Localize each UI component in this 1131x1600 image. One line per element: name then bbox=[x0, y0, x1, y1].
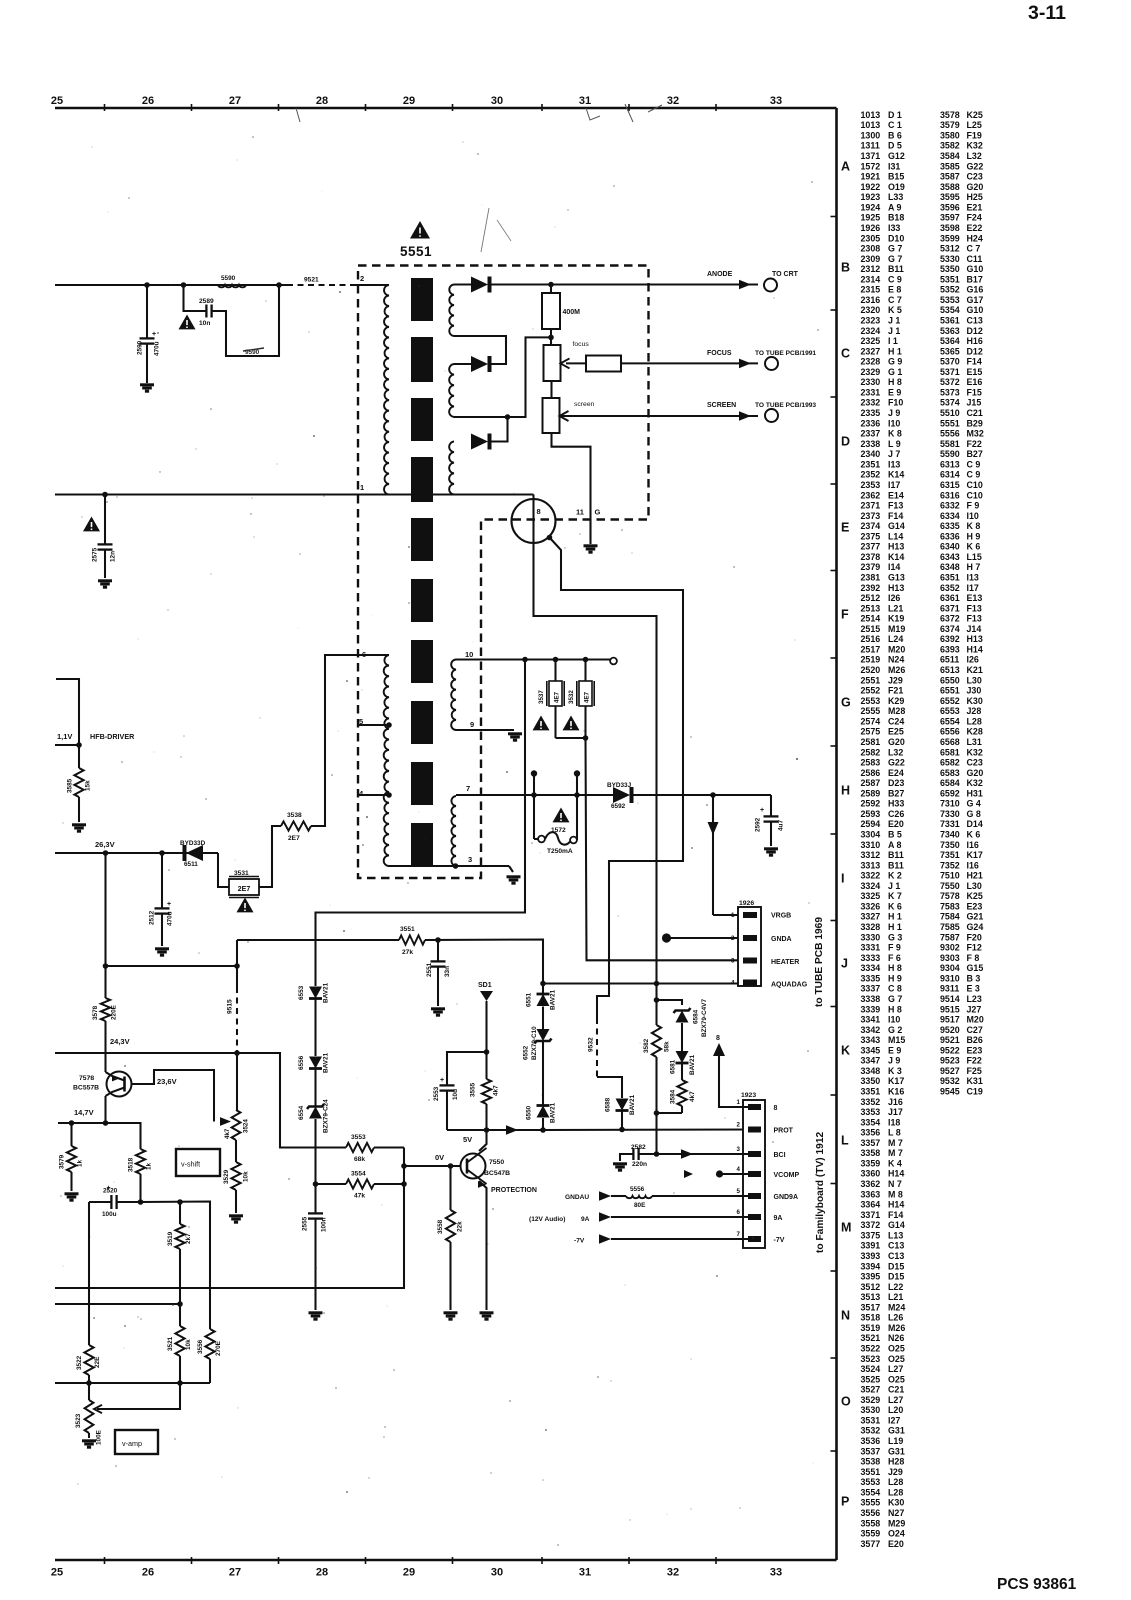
junction 2551 top bbox=[435, 937, 441, 943]
diode 6588 BAV21 bbox=[605, 1094, 637, 1115]
resistor 400M bbox=[542, 285, 560, 346]
svg-text:3532: 3532 bbox=[568, 690, 575, 704]
diode D1 HV top bbox=[471, 277, 490, 293]
svg-text:31: 31 bbox=[579, 95, 591, 107]
svg-text:6583: 6583 bbox=[940, 768, 960, 778]
svg-text:2324: 2324 bbox=[861, 326, 881, 336]
svg-text:0V: 0V bbox=[435, 1153, 444, 1162]
svg-text:E: E bbox=[841, 521, 849, 535]
svg-text:HFB-DRIVER: HFB-DRIVER bbox=[90, 732, 135, 741]
svg-text:M32: M32 bbox=[967, 429, 984, 439]
svg-text:F25: F25 bbox=[967, 1066, 982, 1076]
warning triangle 5551 bbox=[410, 221, 430, 239]
svg-text:L30: L30 bbox=[967, 881, 982, 891]
svg-text:1923: 1923 bbox=[741, 1092, 756, 1099]
wire pin8 up bbox=[713, 1035, 754, 1107]
svg-text:3596: 3596 bbox=[940, 202, 960, 212]
svg-text:6581: 6581 bbox=[670, 1059, 677, 1074]
svg-text:H24: H24 bbox=[967, 233, 983, 243]
svg-text:7583: 7583 bbox=[940, 902, 960, 912]
svg-text:3304: 3304 bbox=[861, 830, 881, 840]
svg-text:F14: F14 bbox=[967, 357, 982, 367]
svg-text:B27: B27 bbox=[967, 449, 983, 459]
svg-text:400M: 400M bbox=[563, 309, 581, 316]
svg-text:2: 2 bbox=[731, 935, 735, 942]
wire 6551 column top bbox=[542, 984, 544, 995]
svg-text:6513: 6513 bbox=[940, 665, 960, 675]
wire 6588 to PROT bbox=[621, 1111, 623, 1130]
transistor 7550 BC547B bbox=[461, 1130, 511, 1310]
svg-text:3339: 3339 bbox=[861, 1004, 881, 1014]
svg-text:L: L bbox=[841, 1134, 849, 1148]
svg-text:E25: E25 bbox=[888, 727, 904, 737]
svg-text:BC547B: BC547B bbox=[484, 1170, 510, 1177]
svg-text:9527: 9527 bbox=[940, 1066, 960, 1076]
svg-text:K 6: K 6 bbox=[888, 902, 902, 912]
svg-text:M29: M29 bbox=[888, 1518, 905, 1528]
svg-text:J 1: J 1 bbox=[888, 316, 900, 326]
label 5V bbox=[463, 1135, 472, 1144]
label 3590 smudge bbox=[243, 348, 264, 356]
ground pin9 bbox=[508, 734, 522, 740]
svg-text:6550: 6550 bbox=[940, 675, 960, 685]
label to TUBE PCB 1969 bbox=[814, 917, 825, 1007]
svg-text:3345: 3345 bbox=[861, 1045, 881, 1055]
svg-text:AQUADAG: AQUADAG bbox=[771, 982, 808, 989]
svg-text:6551: 6551 bbox=[526, 992, 533, 1007]
ground 3558 bbox=[444, 1313, 458, 1319]
svg-text:TO TUBE PCB/1991: TO TUBE PCB/1991 bbox=[755, 350, 816, 357]
svg-text:E22: E22 bbox=[967, 223, 983, 233]
svg-text:3529: 3529 bbox=[223, 1169, 230, 1184]
svg-text:G 8: G 8 bbox=[967, 809, 981, 819]
junction 3519 top bbox=[177, 1199, 183, 1205]
capacitor 2520 bbox=[89, 1185, 141, 1218]
svg-text:27: 27 bbox=[229, 95, 241, 107]
svg-text:9522: 9522 bbox=[940, 1045, 960, 1055]
svg-text:M 8: M 8 bbox=[888, 1189, 903, 1199]
svg-text:9523: 9523 bbox=[940, 1056, 960, 1066]
ground 2590 bbox=[140, 385, 154, 391]
svg-text:3530: 3530 bbox=[861, 1405, 881, 1415]
svg-text:6552: 6552 bbox=[523, 1045, 530, 1060]
svg-text:BYD33D: BYD33D bbox=[180, 840, 206, 847]
parts list column 2 bbox=[940, 110, 984, 1097]
svg-text:3553: 3553 bbox=[351, 1134, 366, 1141]
svg-text:33n: 33n bbox=[444, 966, 451, 977]
resistor 3558 bbox=[437, 1166, 464, 1310]
svg-text:9A: 9A bbox=[581, 1216, 590, 1223]
warning triangle 3537 bbox=[533, 716, 550, 731]
svg-text:6554: 6554 bbox=[298, 1105, 305, 1120]
svg-text:9515: 9515 bbox=[227, 999, 234, 1014]
svg-text:2551: 2551 bbox=[861, 675, 881, 685]
svg-text:3531: 3531 bbox=[234, 870, 249, 877]
svg-text:C11: C11 bbox=[967, 254, 983, 264]
svg-text:H14: H14 bbox=[888, 1169, 904, 1179]
capacitor 2582 bbox=[613, 1144, 657, 1170]
svg-text:F14: F14 bbox=[888, 511, 903, 521]
svg-text:G10: G10 bbox=[967, 305, 984, 315]
svg-text:L28: L28 bbox=[888, 1487, 903, 1497]
svg-text:G12: G12 bbox=[888, 151, 905, 161]
capacitor 2553 bbox=[433, 1052, 487, 1130]
svg-text:K 2: K 2 bbox=[888, 871, 902, 881]
svg-text:2373: 2373 bbox=[861, 511, 881, 521]
wire 6584-6581 bbox=[681, 1023, 683, 1051]
svg-text:2327: 2327 bbox=[861, 346, 881, 356]
junction 1383 b bbox=[177, 1380, 183, 1386]
junction 6550 PROT bbox=[540, 1127, 546, 1133]
svg-text:H31: H31 bbox=[967, 788, 983, 798]
svg-text:3537: 3537 bbox=[861, 1446, 881, 1456]
junction pin10 a bbox=[522, 657, 528, 663]
svg-text:G 7: G 7 bbox=[888, 994, 902, 1004]
svg-text:2377: 2377 bbox=[861, 542, 881, 552]
svg-text:3538: 3538 bbox=[861, 1457, 881, 1467]
svg-text:N 7: N 7 bbox=[888, 1179, 902, 1189]
svg-text:3554: 3554 bbox=[351, 1171, 366, 1178]
svg-text:BZX79-C24: BZX79-C24 bbox=[323, 1099, 330, 1133]
svg-text:4E7: 4E7 bbox=[554, 691, 561, 703]
connector 1926 box bbox=[738, 907, 761, 986]
winding HV section 2 bbox=[449, 364, 454, 417]
svg-text:B15: B15 bbox=[888, 172, 904, 182]
svg-text:H 9: H 9 bbox=[888, 973, 902, 983]
label screen bbox=[574, 401, 595, 408]
label SCREEN bbox=[707, 402, 736, 409]
svg-text:BCI: BCI bbox=[774, 1152, 786, 1159]
svg-text:5350: 5350 bbox=[940, 264, 960, 274]
arrow -7V bbox=[599, 1234, 611, 1244]
svg-text:2362: 2362 bbox=[861, 490, 881, 500]
svg-text:2337: 2337 bbox=[861, 429, 881, 439]
svg-text:G10: G10 bbox=[967, 264, 984, 274]
connector 1923 box bbox=[743, 1100, 765, 1248]
svg-text:2516: 2516 bbox=[861, 634, 881, 644]
svg-text:K25: K25 bbox=[967, 110, 983, 120]
svg-text:6553: 6553 bbox=[940, 706, 960, 716]
svg-text:B 3: B 3 bbox=[967, 973, 981, 983]
CRT heater circle bbox=[512, 499, 556, 543]
svg-text:3330: 3330 bbox=[861, 932, 881, 942]
svg-text:7550: 7550 bbox=[489, 1159, 504, 1166]
svg-text:K30: K30 bbox=[967, 696, 983, 706]
svg-text:K32: K32 bbox=[967, 778, 983, 788]
svg-text:B27: B27 bbox=[888, 788, 904, 798]
svg-text:24,3V: 24,3V bbox=[110, 1037, 130, 1046]
label PROTECTION bbox=[491, 1187, 537, 1194]
svg-text:5352: 5352 bbox=[940, 285, 960, 295]
svg-text:L27: L27 bbox=[888, 1395, 903, 1405]
svg-text:C26: C26 bbox=[888, 809, 904, 819]
svg-text:2351: 2351 bbox=[861, 459, 881, 469]
svg-text:M28: M28 bbox=[888, 706, 905, 716]
svg-text:22E: 22E bbox=[94, 1356, 101, 1368]
svg-text:10u: 10u bbox=[452, 1089, 459, 1100]
svg-text:G14: G14 bbox=[888, 521, 905, 531]
svg-text:9521: 9521 bbox=[304, 277, 319, 284]
svg-text:G31: G31 bbox=[888, 1446, 905, 1456]
svg-text:C27: C27 bbox=[967, 1025, 983, 1035]
capacitor 2551 bbox=[426, 940, 451, 1006]
svg-text:4: 4 bbox=[731, 980, 735, 987]
svg-text:1: 1 bbox=[737, 1099, 741, 1106]
svg-text:G13: G13 bbox=[888, 573, 905, 583]
svg-text:K14: K14 bbox=[888, 552, 904, 562]
svg-text:F15: F15 bbox=[967, 388, 982, 398]
svg-text:30: 30 bbox=[491, 1567, 503, 1579]
svg-text:6314: 6314 bbox=[940, 470, 960, 480]
wire pin4 stub bbox=[359, 794, 389, 796]
svg-text:J29: J29 bbox=[888, 1467, 903, 1477]
wire VCOMP bbox=[720, 1173, 755, 1175]
svg-text:C21: C21 bbox=[888, 1385, 904, 1395]
warning triangle 3532 bbox=[563, 716, 580, 731]
svg-text:1311: 1311 bbox=[861, 141, 880, 151]
svg-text:7330: 7330 bbox=[940, 809, 960, 819]
svg-text:100E: 100E bbox=[96, 1429, 103, 1445]
resistor 3529 bbox=[223, 1162, 250, 1190]
wire 6552-6550 bbox=[542, 1042, 544, 1106]
svg-text:L32: L32 bbox=[967, 151, 982, 161]
svg-text:6336: 6336 bbox=[940, 531, 960, 541]
svg-text:80E: 80E bbox=[634, 1202, 646, 1209]
svg-text:4: 4 bbox=[737, 1166, 741, 1173]
svg-text:G17: G17 bbox=[967, 295, 984, 305]
wire GNDA line bbox=[667, 937, 751, 939]
svg-text:I26: I26 bbox=[888, 593, 900, 603]
arrow GNDAU bbox=[599, 1191, 611, 1201]
svg-text:3523: 3523 bbox=[861, 1354, 881, 1364]
svg-text:5581: 5581 bbox=[940, 439, 960, 449]
svg-text:SD1: SD1 bbox=[478, 982, 492, 989]
junction fusible join bbox=[583, 735, 589, 741]
svg-text:10: 10 bbox=[465, 650, 473, 659]
svg-text:I31: I31 bbox=[888, 161, 900, 171]
svg-text:3324: 3324 bbox=[861, 881, 881, 891]
junction 3558 top bbox=[448, 1163, 454, 1169]
svg-text:2375: 2375 bbox=[861, 531, 881, 541]
svg-text:2336: 2336 bbox=[861, 418, 881, 428]
wire 237 riser top bbox=[236, 940, 238, 987]
resistor 3553 bbox=[346, 1134, 374, 1163]
svg-text:5354: 5354 bbox=[940, 305, 960, 315]
svg-text:6511: 6511 bbox=[940, 655, 959, 665]
svg-text:C: C bbox=[841, 347, 850, 361]
svg-text:H33: H33 bbox=[888, 799, 904, 809]
ground pin3 bbox=[507, 877, 521, 883]
svg-text:K 8: K 8 bbox=[967, 521, 981, 531]
svg-text:25: 25 bbox=[51, 95, 63, 107]
resistor 3585 bbox=[67, 745, 92, 822]
svg-text:5V: 5V bbox=[463, 1135, 472, 1144]
svg-text:O25: O25 bbox=[888, 1354, 905, 1364]
pin 11 label bbox=[576, 508, 584, 517]
label to Familyboard bbox=[815, 1132, 826, 1253]
svg-text:H13: H13 bbox=[888, 583, 904, 593]
label BCI bbox=[774, 1152, 786, 1159]
ground 2555 bbox=[309, 1313, 323, 1319]
svg-text:B11: B11 bbox=[888, 850, 904, 860]
svg-text:5363: 5363 bbox=[940, 326, 960, 336]
svg-text:3512: 3512 bbox=[861, 1282, 881, 1292]
label HEATER bbox=[771, 959, 799, 966]
resistor 3556 bbox=[197, 1329, 222, 1383]
svg-text:3326: 3326 bbox=[861, 902, 881, 912]
svg-text:9310: 9310 bbox=[940, 973, 960, 983]
svg-text:E23: E23 bbox=[967, 1045, 983, 1055]
svg-text:L22: L22 bbox=[888, 1282, 903, 1292]
pin 10 label bbox=[465, 650, 473, 659]
svg-text:G21: G21 bbox=[967, 912, 984, 922]
svg-text:L25: L25 bbox=[967, 120, 982, 130]
svg-text:I10: I10 bbox=[888, 418, 900, 428]
svg-text:M: M bbox=[841, 1221, 851, 1235]
svg-text:2512: 2512 bbox=[149, 910, 156, 925]
svg-text:F13: F13 bbox=[967, 603, 982, 613]
svg-text:H 1: H 1 bbox=[888, 346, 902, 356]
svg-text:2513: 2513 bbox=[861, 603, 881, 613]
potentiometer focus bbox=[544, 345, 570, 381]
label 26.3V bbox=[95, 840, 115, 849]
svg-text:focus: focus bbox=[573, 341, 590, 348]
pin 3 label bbox=[468, 855, 472, 864]
svg-text:6335: 6335 bbox=[940, 521, 960, 531]
label 23.6V bbox=[157, 1077, 177, 1086]
svg-text:3327: 3327 bbox=[861, 912, 881, 922]
label 14.7V bbox=[74, 1108, 94, 1117]
svg-text:C23: C23 bbox=[967, 172, 983, 182]
svg-text:9545: 9545 bbox=[940, 1087, 960, 1097]
svg-text:N: N bbox=[841, 1309, 850, 1323]
svg-text:L33: L33 bbox=[888, 192, 903, 202]
svg-text:4k7: 4k7 bbox=[689, 1091, 696, 1102]
svg-text:15k: 15k bbox=[85, 780, 92, 791]
wire PROT line bbox=[543, 1128, 754, 1131]
wire 6556-6554 bbox=[314, 1069, 316, 1106]
svg-text:J 1: J 1 bbox=[888, 326, 900, 336]
svg-text:9514: 9514 bbox=[940, 994, 960, 1004]
svg-text:3587: 3587 bbox=[940, 172, 960, 182]
spark gap SD1 bbox=[478, 982, 493, 1052]
wire 3538 to pin6 bbox=[311, 655, 389, 826]
svg-text:3584: 3584 bbox=[670, 1089, 677, 1104]
svg-text:2371: 2371 bbox=[861, 501, 881, 511]
svg-text:6343: 6343 bbox=[940, 552, 960, 562]
svg-text:7: 7 bbox=[466, 784, 470, 793]
wire 3554 left bbox=[316, 1183, 347, 1185]
svg-text:-7V: -7V bbox=[574, 1238, 585, 1245]
ground 2575 bbox=[98, 581, 112, 587]
svg-text:10k: 10k bbox=[243, 1171, 250, 1182]
svg-text:L27: L27 bbox=[888, 1364, 903, 1374]
svg-text:3333: 3333 bbox=[861, 953, 881, 963]
svg-text:100n: 100n bbox=[321, 1217, 328, 1232]
transistor 7578 BC557B bbox=[73, 1072, 132, 1097]
svg-text:6332: 6332 bbox=[940, 501, 960, 511]
svg-text:E21: E21 bbox=[967, 202, 983, 212]
svg-text:B 6: B 6 bbox=[888, 131, 902, 141]
svg-text:2: 2 bbox=[737, 1122, 741, 1129]
svg-text:J16: J16 bbox=[888, 1097, 903, 1107]
svg-text:7331: 7331 bbox=[940, 819, 960, 829]
svg-text:G 7: G 7 bbox=[888, 254, 902, 264]
svg-text:3518: 3518 bbox=[128, 1157, 135, 1172]
border right bbox=[835, 108, 838, 1560]
junction aquadag feed bbox=[540, 981, 546, 987]
junction 400M bottom bbox=[548, 335, 554, 341]
svg-text:D14: D14 bbox=[967, 819, 983, 829]
diode 6551 BAV21 bbox=[526, 989, 557, 1010]
svg-text:3555: 3555 bbox=[861, 1498, 881, 1508]
ground 3523 bbox=[82, 1441, 96, 1447]
svg-text:+: + bbox=[760, 807, 764, 814]
wire 26.3V line bbox=[55, 852, 218, 854]
warning triangle 2589 bbox=[179, 315, 196, 330]
svg-text:5510: 5510 bbox=[940, 408, 960, 418]
svg-text:E16: E16 bbox=[967, 377, 983, 387]
svg-text:9311: 9311 bbox=[940, 984, 959, 994]
svg-text:3371: 3371 bbox=[861, 1210, 881, 1220]
svg-text:2582: 2582 bbox=[631, 1144, 646, 1151]
diode 6550 BAV21 bbox=[526, 1102, 557, 1123]
wire 1304 line bbox=[55, 1303, 180, 1305]
junction 26.3V b bbox=[159, 850, 165, 856]
svg-text:3343: 3343 bbox=[861, 1035, 881, 1045]
svg-text:3519: 3519 bbox=[167, 1231, 174, 1246]
svg-text:BAV21: BAV21 bbox=[550, 1102, 557, 1123]
svg-text:7350: 7350 bbox=[940, 840, 960, 850]
resistor 3519 bbox=[167, 1202, 192, 1304]
pin 6 label bbox=[362, 650, 366, 659]
svg-text:25: 25 bbox=[51, 1567, 63, 1579]
ground 3529 bbox=[229, 1216, 243, 1222]
svg-text:K 4: K 4 bbox=[888, 1159, 902, 1169]
svg-text:4u7: 4u7 bbox=[778, 820, 785, 831]
svg-text:H 7: H 7 bbox=[967, 562, 981, 572]
warning triangle 3531 bbox=[237, 898, 254, 913]
svg-text:3522: 3522 bbox=[76, 1355, 83, 1370]
wire 3578 to 7578 bbox=[104, 1021, 106, 1072]
svg-text:H: H bbox=[841, 784, 850, 798]
svg-text:D 5: D 5 bbox=[888, 141, 902, 151]
junction pin10 c bbox=[583, 657, 589, 663]
node GNDA blob bbox=[662, 933, 671, 942]
fusible resistor 3532 bbox=[568, 660, 594, 739]
svg-text:K 6: K 6 bbox=[967, 542, 981, 552]
svg-text:B18: B18 bbox=[888, 213, 904, 223]
svg-text:9515: 9515 bbox=[940, 1004, 960, 1014]
svg-text:5: 5 bbox=[737, 1188, 741, 1195]
svg-text:3556: 3556 bbox=[861, 1508, 881, 1518]
arrow VCOMP bbox=[684, 1170, 693, 1178]
svg-text:K25: K25 bbox=[967, 891, 983, 901]
svg-text:6592: 6592 bbox=[611, 803, 626, 810]
svg-text:3359: 3359 bbox=[861, 1159, 881, 1169]
svg-text:3356: 3356 bbox=[861, 1128, 881, 1138]
svg-text:6588: 6588 bbox=[605, 1097, 612, 1112]
svg-text:6392: 6392 bbox=[940, 634, 960, 644]
junction pin5 bbox=[386, 722, 392, 728]
box v-shift bbox=[176, 1149, 220, 1176]
svg-text:J28: J28 bbox=[967, 706, 982, 716]
svg-text:D12: D12 bbox=[967, 346, 983, 356]
svg-text:H13: H13 bbox=[967, 634, 983, 644]
svg-text:7352: 7352 bbox=[940, 860, 960, 870]
svg-text:N26: N26 bbox=[888, 1333, 904, 1343]
wire 3529 gnd bbox=[235, 1190, 237, 1213]
